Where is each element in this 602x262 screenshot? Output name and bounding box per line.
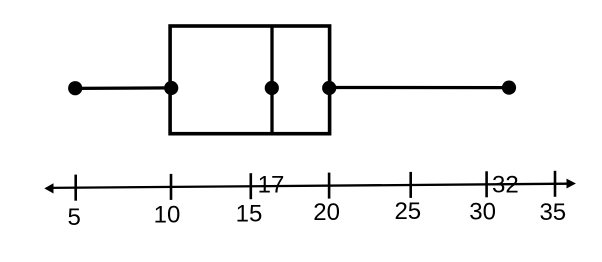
svg-text:10: 10: [154, 202, 181, 229]
median dot (17): [265, 81, 279, 95]
min dot (5): [68, 81, 82, 95]
svg-text:20: 20: [313, 199, 340, 226]
tick 10: [170, 174, 173, 200]
tick 35: [554, 171, 557, 197]
tick 15: [250, 173, 253, 199]
Q3 dot (20): [322, 81, 336, 95]
svg-text:30: 30: [469, 199, 496, 226]
Q1 dot (10): [164, 81, 178, 95]
svg-text:25: 25: [394, 198, 421, 225]
median line (17): [270, 26, 273, 134]
tick 30: [485, 171, 488, 197]
right whisker: [329, 86, 509, 89]
svg-text:17: 17: [258, 172, 285, 199]
max dot (32): [502, 81, 516, 95]
box (Q1 to Q3): [170, 26, 330, 134]
right arrowhead: [567, 179, 576, 189]
number line: [50, 184, 568, 188]
svg-text:32: 32: [492, 172, 519, 199]
left whisker: [75, 86, 171, 90]
tick 20: [328, 173, 331, 199]
tick 25: [409, 172, 412, 198]
left arrowhead: [44, 183, 53, 193]
tick 5: [74, 175, 77, 201]
svg-text:5: 5: [68, 204, 81, 231]
svg-text:35: 35: [539, 199, 566, 226]
svg-text:15: 15: [236, 201, 263, 228]
